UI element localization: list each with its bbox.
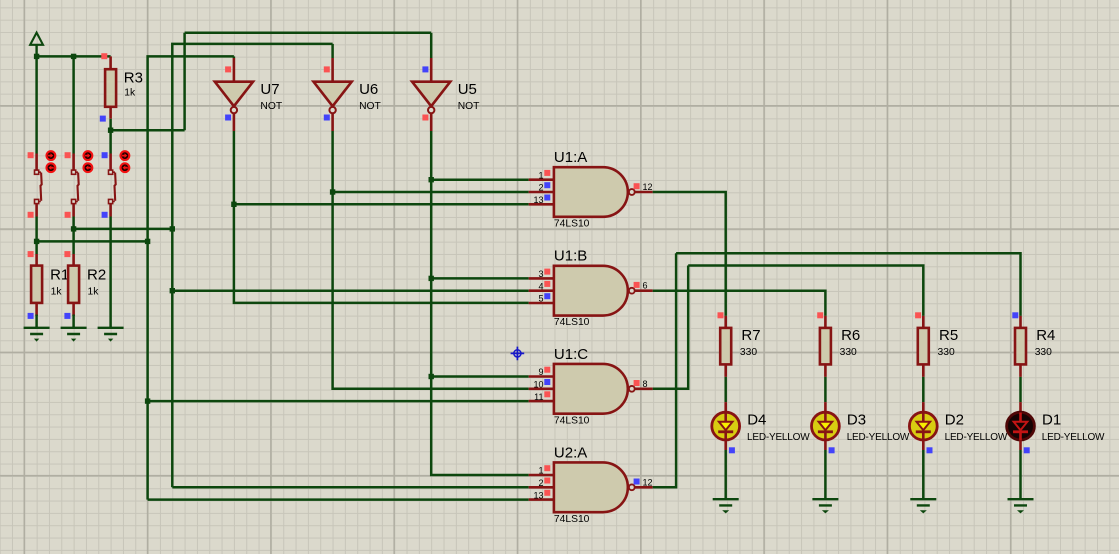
wire U5 output — [431, 131, 529, 475]
pin marker U2:A pin 2 — [544, 478, 550, 484]
svg-text:330: 330 — [938, 347, 955, 358]
svg-text:U1:A: U1:A — [554, 149, 587, 166]
wire U5 output to U1:C pin9 — [431, 375, 529, 378]
pin marker U1:A pin 13 — [544, 195, 550, 201]
svg-text:6: 6 — [643, 281, 648, 291]
NOT gate U5 input stub — [430, 58, 433, 82]
wire D1 to ground — [1019, 450, 1022, 499]
switch SW2 toggle buttons — [84, 151, 93, 172]
wire U1:B output to R6 — [653, 291, 826, 316]
resistor R6 — [820, 316, 831, 377]
NAND gate U2:A input stubs — [529, 475, 554, 500]
NAND gate U2:A output bubble — [629, 484, 653, 490]
ground D4 column — [713, 499, 739, 513]
junction U6 out pin2 tap — [330, 189, 335, 194]
svg-text:1: 1 — [538, 170, 543, 180]
svg-text:13: 13 — [533, 195, 543, 205]
pin marker D1 bottom — [1024, 447, 1030, 453]
NAND gate U1:C output bubble — [629, 386, 653, 392]
wire net A riser — [148, 56, 234, 499]
junction net A column1 — [34, 239, 39, 244]
svg-text:74LS10: 74LS10 — [554, 317, 590, 328]
pin marker U1:A pin 1 — [544, 170, 550, 176]
wire U7 output to U1:A pin13 — [234, 203, 529, 206]
svg-text:74LS10: 74LS10 — [554, 415, 590, 426]
NAND gate U1:B body — [554, 266, 628, 316]
svg-text:1: 1 — [538, 466, 543, 476]
wire net A drop to U7 — [233, 56, 236, 58]
svg-text:U7: U7 — [260, 81, 279, 98]
NAND gate U1:A body — [554, 167, 628, 217]
wire net A row — [37, 240, 148, 243]
svg-text:4: 4 — [538, 281, 543, 291]
NAND gate U1:A input stubs — [529, 180, 554, 205]
wire net C horizontal — [111, 129, 185, 132]
pin marker U5 input — [422, 66, 428, 72]
LED D1 — [1007, 402, 1035, 450]
wire D2 to ground — [922, 450, 925, 499]
pin marker U5 output — [422, 115, 428, 121]
ground ground column 1 — [24, 328, 50, 342]
pin marker SW2 bottom — [65, 212, 71, 218]
pin marker R3 top — [101, 53, 107, 59]
svg-text:U6: U6 — [359, 81, 378, 98]
svg-text:330: 330 — [840, 347, 857, 358]
wire net B to U1:B pin4 — [172, 289, 528, 292]
pin marker U1:C pin 10 — [544, 379, 550, 385]
pin marker SW3 bottom — [102, 212, 108, 218]
svg-text:74LS10: 74LS10 — [554, 514, 590, 525]
NOT gate U5 — [412, 82, 450, 131]
pin marker R4 top — [1012, 312, 1018, 318]
pin marker U7 output — [225, 115, 231, 121]
svg-text:R4: R4 — [1036, 327, 1055, 344]
wire net C top rail — [185, 32, 432, 35]
wire R2 to ground — [72, 315, 75, 328]
pin marker U1:B pin 5 — [544, 293, 550, 299]
wire D3 to ground — [824, 450, 827, 499]
pin marker U7 input — [225, 66, 231, 72]
pin marker R7 top — [718, 312, 724, 318]
pin marker U1:A pin 2 — [544, 182, 550, 188]
NAND gate U1:C input stubs — [529, 377, 554, 402]
svg-text:330: 330 — [1035, 347, 1052, 358]
resistor R7 — [720, 316, 731, 377]
wire column 2 lower — [72, 217, 75, 255]
wire U2:A output to R4 — [676, 253, 1020, 316]
svg-text:D1: D1 — [1042, 412, 1061, 429]
junction node C — [108, 128, 113, 133]
svg-text:2: 2 — [538, 478, 543, 488]
pin marker R5 top — [915, 312, 921, 318]
pin marker R3 bottom — [100, 116, 106, 122]
wire U5 output to U1:A pin1 — [431, 178, 529, 181]
cursor crosshair — [511, 347, 525, 361]
pin marker D3 bottom — [829, 447, 835, 453]
resistor R1 — [31, 254, 42, 316]
NAND gate U1:A output bubble — [629, 189, 653, 195]
wire D4 to ground — [724, 450, 727, 499]
svg-text:NOT: NOT — [260, 101, 282, 112]
NAND gate U1:C body — [554, 364, 628, 414]
wire R6 to D3 — [824, 377, 827, 402]
resistor R2 — [68, 254, 79, 316]
wire U1:C output to R5 — [688, 266, 923, 316]
svg-text:D3: D3 — [847, 412, 866, 429]
pin marker U1:A output — [634, 183, 640, 189]
svg-text:1k: 1k — [51, 287, 63, 298]
wire power rail — [37, 55, 111, 58]
ground D1 column — [1008, 499, 1034, 513]
resistor R5 — [918, 316, 929, 377]
pin marker U1:B pin 3 — [544, 269, 550, 275]
ground ground column 3 — [98, 328, 124, 342]
svg-text:U1:B: U1:B — [554, 248, 587, 265]
pin marker U1:C output — [634, 380, 640, 386]
svg-text:NOT: NOT — [359, 101, 381, 112]
svg-text:11: 11 — [534, 392, 543, 402]
pin marker R1 bottom — [28, 313, 34, 319]
pin marker U1:B output — [634, 282, 640, 288]
switch SW1 — [35, 154, 42, 217]
pin marker U2:A pin 1 — [544, 465, 550, 471]
svg-text:LED-YELLOW: LED-YELLOW — [1042, 432, 1105, 443]
wire net A to U1:C pin11 — [148, 400, 529, 403]
NOT gate U7 — [215, 82, 253, 131]
wire R3 bottom to node C — [109, 119, 112, 130]
pin marker U1:B pin 4 — [544, 281, 550, 287]
svg-text:R6: R6 — [841, 327, 860, 344]
wire U6 output — [333, 131, 529, 389]
junction U5 out pin3 tap — [429, 276, 434, 281]
wire column 2 upper — [72, 56, 75, 153]
wire net C drop to U5 — [430, 33, 433, 58]
pin marker SW1 bottom — [28, 212, 34, 218]
pin marker U2:A pin 13 — [544, 490, 550, 496]
junction U5 out pin9 tap — [429, 374, 434, 379]
junction power rail column 1 — [34, 54, 39, 59]
power symbol VCC arrow — [30, 33, 43, 57]
switch SW3 toggle buttons — [121, 151, 130, 172]
wire net B row — [74, 228, 173, 231]
svg-text:12: 12 — [643, 477, 653, 487]
junction net A riser — [145, 239, 150, 244]
pin marker D2 bottom — [927, 447, 933, 453]
svg-text:12: 12 — [643, 182, 653, 192]
svg-text:LED-YELLOW: LED-YELLOW — [847, 432, 910, 443]
svg-text:D4: D4 — [747, 412, 766, 429]
svg-text:U2:A: U2:A — [554, 444, 587, 461]
svg-text:R3: R3 — [124, 70, 143, 87]
pin marker R6 top — [817, 312, 823, 318]
svg-text:9: 9 — [538, 367, 543, 377]
ground D2 column — [910, 499, 936, 513]
svg-text:2: 2 — [538, 183, 543, 193]
wire net B riser — [172, 44, 332, 487]
pin marker D4 bottom — [729, 447, 735, 453]
junction net B column2 — [71, 226, 76, 231]
wire U5 output to U1:B pin3 — [431, 277, 529, 280]
wire net B drop to U6 — [331, 44, 334, 58]
resistor R3 — [105, 56, 116, 118]
wire net B to U2:A pin2 — [172, 486, 528, 489]
switch SW1 toggle buttons — [47, 151, 56, 172]
junction net B pin4 tap — [170, 288, 175, 293]
pin marker SW3 top — [102, 152, 108, 158]
pin marker U1:C pin 11 — [544, 391, 550, 397]
NOT gate U7 input stub — [233, 58, 236, 82]
svg-text:D2: D2 — [945, 412, 964, 429]
svg-text:R5: R5 — [939, 327, 958, 344]
svg-text:NOT: NOT — [458, 101, 480, 112]
wire column 3 switch top — [109, 130, 112, 153]
svg-text:LED-YELLOW: LED-YELLOW — [747, 432, 810, 443]
pin marker R2 bottom — [64, 313, 70, 319]
NOT gate U6 — [314, 82, 352, 131]
svg-text:5: 5 — [538, 294, 543, 304]
wire net A to U2:A pin13 — [148, 498, 529, 501]
svg-text:LED-YELLOW: LED-YELLOW — [945, 432, 1008, 443]
junction power rail column 2 — [71, 54, 76, 59]
pin marker U2:A output — [634, 479, 640, 485]
svg-text:3: 3 — [538, 269, 543, 279]
svg-text:1k: 1k — [124, 88, 136, 99]
svg-text:U5: U5 — [458, 81, 477, 98]
NAND gate U2:A body — [554, 462, 628, 512]
ground D3 column — [812, 499, 838, 513]
wire net C riser — [183, 33, 186, 130]
svg-text:1k: 1k — [88, 287, 100, 298]
resistor R4 — [1015, 316, 1026, 377]
wire U6 output to U1:A pin2 — [333, 191, 529, 194]
switch SW2 — [72, 154, 79, 217]
svg-text:U1:C: U1:C — [554, 346, 588, 363]
wire U7 output — [234, 131, 529, 303]
svg-text:13: 13 — [533, 490, 543, 500]
pin marker U6 output — [324, 115, 330, 121]
NAND gate U1:B output bubble — [629, 288, 653, 294]
wire R7 to D4 — [724, 377, 727, 402]
junction net A pin11 tap — [145, 398, 150, 403]
NOT gate U6 input stub — [331, 58, 334, 82]
switch SW3 — [109, 154, 116, 217]
wire R1 to ground — [35, 315, 38, 328]
wire column 3 to ground — [109, 217, 112, 328]
svg-text:R2: R2 — [87, 267, 106, 284]
ground ground column 2 — [61, 328, 87, 342]
LED D2 — [909, 402, 937, 450]
LED D3 — [812, 402, 840, 450]
wire U1:C output riser — [653, 266, 689, 389]
pin marker SW1 top — [28, 152, 34, 158]
NAND gate U1:B input stubs — [529, 278, 554, 303]
wire U2:A output riser — [653, 253, 676, 487]
pin marker SW2 top — [65, 152, 71, 158]
pin marker R1 top — [28, 251, 34, 257]
wire R5 to D2 — [922, 377, 925, 402]
junction net B riser — [170, 226, 175, 231]
svg-text:74LS10: 74LS10 — [554, 218, 590, 229]
svg-text:10: 10 — [533, 380, 543, 390]
wire column 1 lower — [35, 217, 38, 255]
wire column 1 upper — [35, 56, 38, 153]
svg-text:R7: R7 — [741, 327, 760, 344]
junction U7 out pin13 tap — [231, 202, 236, 207]
pin marker U6 input — [324, 66, 330, 72]
junction U5 out pin1 tap — [429, 177, 434, 182]
svg-text:R1: R1 — [50, 267, 69, 284]
wire R4 to D1 — [1019, 377, 1022, 402]
svg-text:330: 330 — [740, 347, 757, 358]
pin marker U1:C pin 9 — [544, 367, 550, 373]
wire U1:A output to R7 — [653, 192, 726, 316]
LED D4 — [712, 402, 740, 450]
svg-text:8: 8 — [643, 379, 648, 389]
pin marker R2 top — [64, 251, 70, 257]
